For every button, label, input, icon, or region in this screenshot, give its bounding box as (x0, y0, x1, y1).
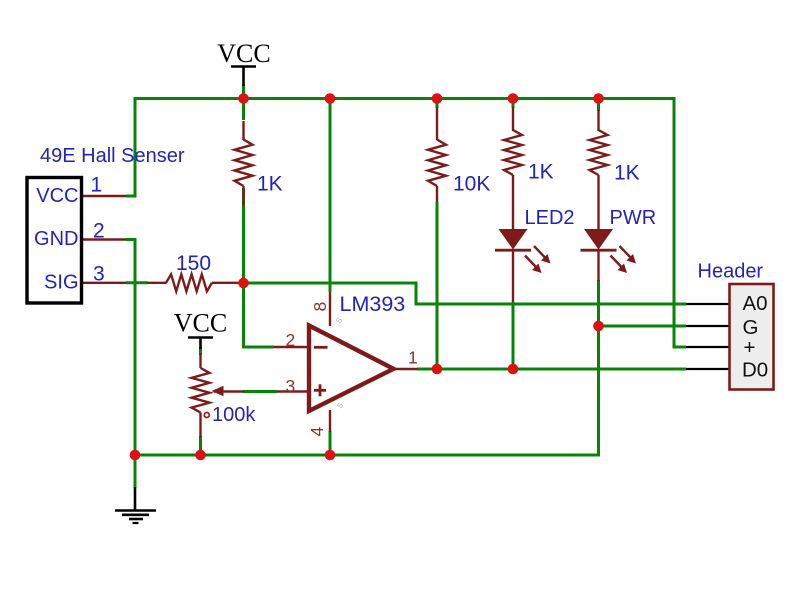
svg-text:49E Hall Senser: 49E Hall Senser (40, 145, 185, 167)
svg-text:3: 3 (93, 263, 105, 286)
svg-text:SIG: SIG (44, 272, 78, 294)
svg-text:PWR: PWR (610, 207, 657, 229)
svg-text:10K: 10K (453, 172, 490, 195)
svg-text:4: 4 (307, 427, 327, 437)
svg-text:LM393: LM393 (340, 292, 406, 316)
svg-text:3: 3 (286, 376, 296, 396)
svg-text:1K: 1K (614, 162, 640, 185)
svg-text:VCC: VCC (174, 309, 227, 338)
svg-text:1K: 1K (528, 161, 554, 184)
svg-text:VCC: VCC (217, 39, 270, 68)
svg-text:LED2: LED2 (525, 207, 575, 229)
svg-text:2: 2 (93, 220, 105, 243)
svg-text:1: 1 (91, 174, 103, 197)
svg-text:GND: GND (34, 228, 78, 250)
svg-text:A0: A0 (743, 292, 768, 315)
svg-text:100k: 100k (212, 404, 256, 426)
svg-text:1: 1 (408, 348, 418, 368)
svg-text:Header: Header (698, 261, 764, 283)
svg-text:+: + (744, 336, 756, 359)
svg-text:D0: D0 (742, 359, 768, 382)
svg-text:2: 2 (286, 330, 296, 350)
svg-text:8: 8 (310, 302, 330, 312)
svg-text:VCC: VCC (36, 185, 78, 207)
svg-text:150: 150 (176, 252, 211, 275)
svg-text:1K: 1K (257, 172, 283, 195)
